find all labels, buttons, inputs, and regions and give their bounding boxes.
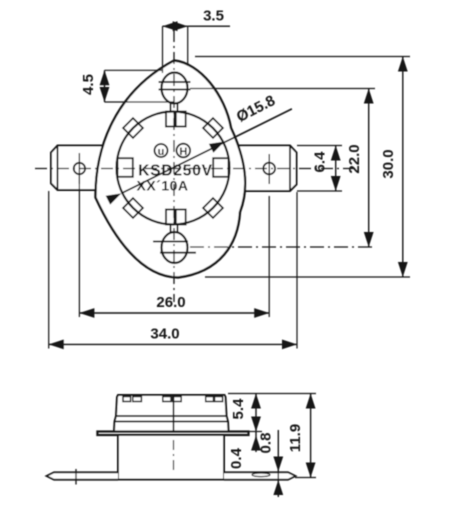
svg-text:0.8: 0.8 (258, 433, 275, 454)
svg-text:34.0: 34.0 (150, 326, 179, 343)
svg-text:22.0: 22.0 (346, 144, 363, 173)
svg-text:30.0: 30.0 (380, 149, 397, 178)
svg-text:u: u (158, 146, 165, 158)
svg-text:0.4: 0.4 (228, 447, 245, 469)
svg-text:26.0: 26.0 (156, 294, 185, 311)
svg-text:H: H (179, 146, 187, 158)
svg-text:5.4: 5.4 (230, 398, 247, 420)
svg-text:11.9: 11.9 (287, 424, 304, 452)
svg-text:4.5: 4.5 (80, 74, 97, 95)
svg-text:XX´10A: XX´10A (136, 178, 188, 194)
svg-text:3.5: 3.5 (203, 8, 224, 25)
svg-text:6.4: 6.4 (312, 151, 329, 173)
